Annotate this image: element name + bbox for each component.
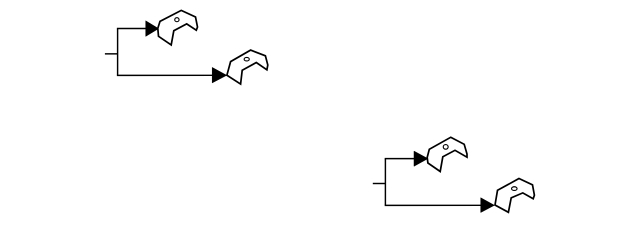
arrowhead A4 bbox=[481, 198, 495, 213]
wire bottom branch group 1 bbox=[117, 74, 213, 76]
node shape S4 bbox=[495, 179, 534, 213]
arrowhead A1 bbox=[146, 21, 159, 37]
wire bottom branch group 2 bbox=[385, 204, 482, 206]
node shape S2 bbox=[227, 50, 268, 84]
node shape S3 bbox=[427, 137, 467, 171]
wire stub group 1 bbox=[105, 53, 118, 55]
wire trunk group 1 bbox=[117, 29, 119, 76]
wire stub group 2 bbox=[373, 183, 386, 185]
arrowhead A3 bbox=[414, 151, 428, 166]
node shape S1 bbox=[158, 10, 198, 45]
wire trunk group 2 bbox=[384, 159, 386, 206]
wire top branch group 1 bbox=[117, 28, 147, 30]
wire top branch group 2 bbox=[385, 158, 415, 160]
arrowhead A2 bbox=[212, 67, 227, 83]
